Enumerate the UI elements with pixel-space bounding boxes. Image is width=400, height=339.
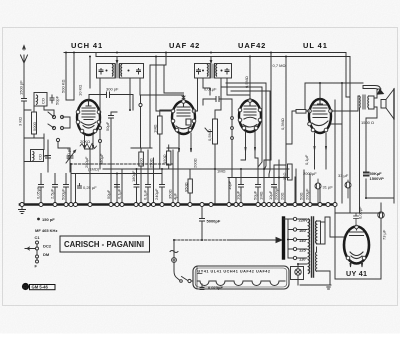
IF T1 left cap xyxy=(99,69,103,75)
cathode drop T1 xyxy=(85,148,94,203)
output transformer core xyxy=(363,95,365,109)
rail join stub xyxy=(95,53,97,57)
IF transformer T1 box right xyxy=(120,64,144,79)
tone arrow symbol xyxy=(363,86,381,90)
mains plug circle xyxy=(172,258,177,263)
legend dot 150pF xyxy=(37,218,40,221)
resistor 1MOhm box xyxy=(158,116,163,134)
T3 grid wire xyxy=(227,78,250,99)
ballast resistor box xyxy=(321,222,326,244)
wire grid drop T1 xyxy=(89,57,91,89)
tube U2 leads xyxy=(179,133,192,152)
IF T1 top arrow xyxy=(116,57,118,63)
T4 grid resistor xyxy=(296,110,306,114)
power transformer core xyxy=(312,217,314,277)
tube U3 UAF42 envelope xyxy=(239,100,261,132)
GM 5-46 box xyxy=(30,285,56,290)
pilot lamp xyxy=(295,269,301,275)
tube U2 UAF42 envelope xyxy=(172,101,195,134)
antenna xyxy=(21,46,28,98)
transformer wires right xyxy=(300,217,344,285)
tube U3 leads xyxy=(245,131,256,151)
osc coil L2 box xyxy=(31,150,44,162)
power transformer secondary HV xyxy=(315,221,318,243)
tube U4 leads xyxy=(314,133,327,150)
capacitor 50KpF block xyxy=(364,173,369,176)
T3 lead connections xyxy=(241,150,296,205)
riser 286 xyxy=(285,57,287,178)
AVC dashed line xyxy=(70,163,173,165)
T2 cathode drops xyxy=(167,148,178,203)
wires output section xyxy=(331,83,394,213)
contacts on x100 xyxy=(99,127,102,130)
contact circle xyxy=(139,103,142,106)
resistor box right xyxy=(288,164,293,180)
IF T2 core xyxy=(211,64,213,78)
wire T2 plate to IFT2 xyxy=(194,78,210,111)
5000pF drop xyxy=(200,205,205,240)
IFT2 top arrow xyxy=(210,57,212,63)
UY41 chassis box xyxy=(335,100,381,279)
rail mid 3 xyxy=(228,177,289,179)
wire top rail B xyxy=(96,56,350,58)
rail mid 2 xyxy=(103,168,289,170)
tube U5 pins xyxy=(355,225,359,229)
caps row mid 2 xyxy=(146,150,174,203)
cap 50uF on x111 xyxy=(109,112,118,169)
tube U2 pins xyxy=(171,109,175,113)
zigzag 20KOhm xyxy=(80,144,97,149)
tube U2 internals xyxy=(176,101,191,129)
pilot lamp box xyxy=(291,267,304,280)
electrolytic 33uF xyxy=(378,212,384,218)
detector contacts xyxy=(231,117,234,120)
rail mid 1 xyxy=(71,173,162,175)
electrolytic 33uF mid xyxy=(345,182,351,188)
tube U1 UCH41 envelope xyxy=(77,100,100,135)
screen feed L wire xyxy=(150,53,171,149)
heater humps xyxy=(197,281,285,286)
fixed cap near COO xyxy=(46,149,51,165)
tube U3 internals xyxy=(243,100,257,127)
bottom bus xyxy=(20,203,336,206)
IF T2 right cap xyxy=(225,69,229,75)
drop var cap xyxy=(71,164,76,203)
output transformer secondary xyxy=(367,96,370,108)
riser 250 xyxy=(249,57,251,101)
wire top rail A xyxy=(64,52,346,54)
tube U3 pins xyxy=(238,108,242,112)
output transformer primary coil xyxy=(359,96,362,108)
IF T2 left coil xyxy=(207,65,210,77)
drop C 0,05uF xyxy=(39,174,44,204)
T4 grid coupling line xyxy=(305,83,342,110)
IF T1 right coil xyxy=(120,65,123,77)
chassis ground right xyxy=(326,285,331,289)
riser 271 xyxy=(264,53,271,170)
capacitor antenna series xyxy=(22,99,27,204)
tap leads xyxy=(297,219,307,258)
tube U5 internals xyxy=(349,226,364,259)
band switch contacts xyxy=(52,115,55,118)
tube U5 UY41 envelope xyxy=(344,227,369,264)
tube U1 internals xyxy=(81,100,96,128)
drop C 2,5uF xyxy=(53,174,58,204)
arrow into filter bar xyxy=(230,238,282,243)
IF T1 core xyxy=(116,64,118,78)
mains dashed riser xyxy=(173,240,175,258)
GM logo circle xyxy=(22,283,29,290)
taps riser xyxy=(284,219,294,258)
IFT1 drops xyxy=(100,78,184,203)
ground xyxy=(19,205,26,214)
tube U4 pins xyxy=(308,109,312,113)
right column stubs xyxy=(295,170,320,203)
variable capacitor with arrow xyxy=(66,150,76,163)
drop 241 cap xyxy=(239,169,244,203)
mains switch xyxy=(174,262,189,281)
IF transformer T2 box right xyxy=(215,64,232,79)
speaker xyxy=(381,89,394,119)
CARISCH PAGANINI box xyxy=(60,236,150,252)
tube U4 internals xyxy=(312,99,328,126)
cap 0,25uF xyxy=(78,184,82,189)
heater strip inner top line xyxy=(197,266,202,289)
cap 0,025uF xyxy=(200,284,204,290)
bus junction circles xyxy=(20,203,337,207)
cap above UY41 xyxy=(335,213,359,226)
electrolytic 31uF xyxy=(315,183,321,189)
heater strip rounded box xyxy=(193,266,289,289)
IF T1 left coil xyxy=(112,65,115,77)
power transformer primary winding xyxy=(309,219,310,273)
resistor 100 box xyxy=(139,152,144,166)
tube U1 pins xyxy=(76,110,80,114)
oscillator coil drops xyxy=(66,53,74,101)
trimmer cap near L1 xyxy=(50,95,54,103)
drops right group xyxy=(221,83,286,203)
IF transformer T2 box left xyxy=(195,64,211,79)
drop 236 xyxy=(235,178,237,204)
resistor R 5000 box xyxy=(32,112,37,134)
IF T2 left cap xyxy=(197,69,201,75)
legend contacts xyxy=(36,241,39,244)
wires left tuning section xyxy=(24,106,70,172)
tube U1 leads xyxy=(84,134,94,149)
caps row mid left xyxy=(115,169,140,203)
drop C 500uF xyxy=(64,174,69,204)
power transformer taps xyxy=(293,217,296,220)
IF T2 right coil xyxy=(215,65,218,77)
antenna coil L1 box xyxy=(34,93,47,107)
resistor 950 box xyxy=(188,179,192,193)
tube U5 leads xyxy=(350,261,363,267)
vol pot box xyxy=(213,119,218,144)
IF transformer T1 box left xyxy=(97,64,116,79)
tube U4 UL41 envelope xyxy=(309,99,331,133)
mains tilde xyxy=(170,251,178,253)
power transformer secondary heater xyxy=(315,252,318,271)
IF T1 right cap xyxy=(137,69,141,75)
wire right double drop xyxy=(346,53,350,214)
filter bar xyxy=(282,218,285,258)
